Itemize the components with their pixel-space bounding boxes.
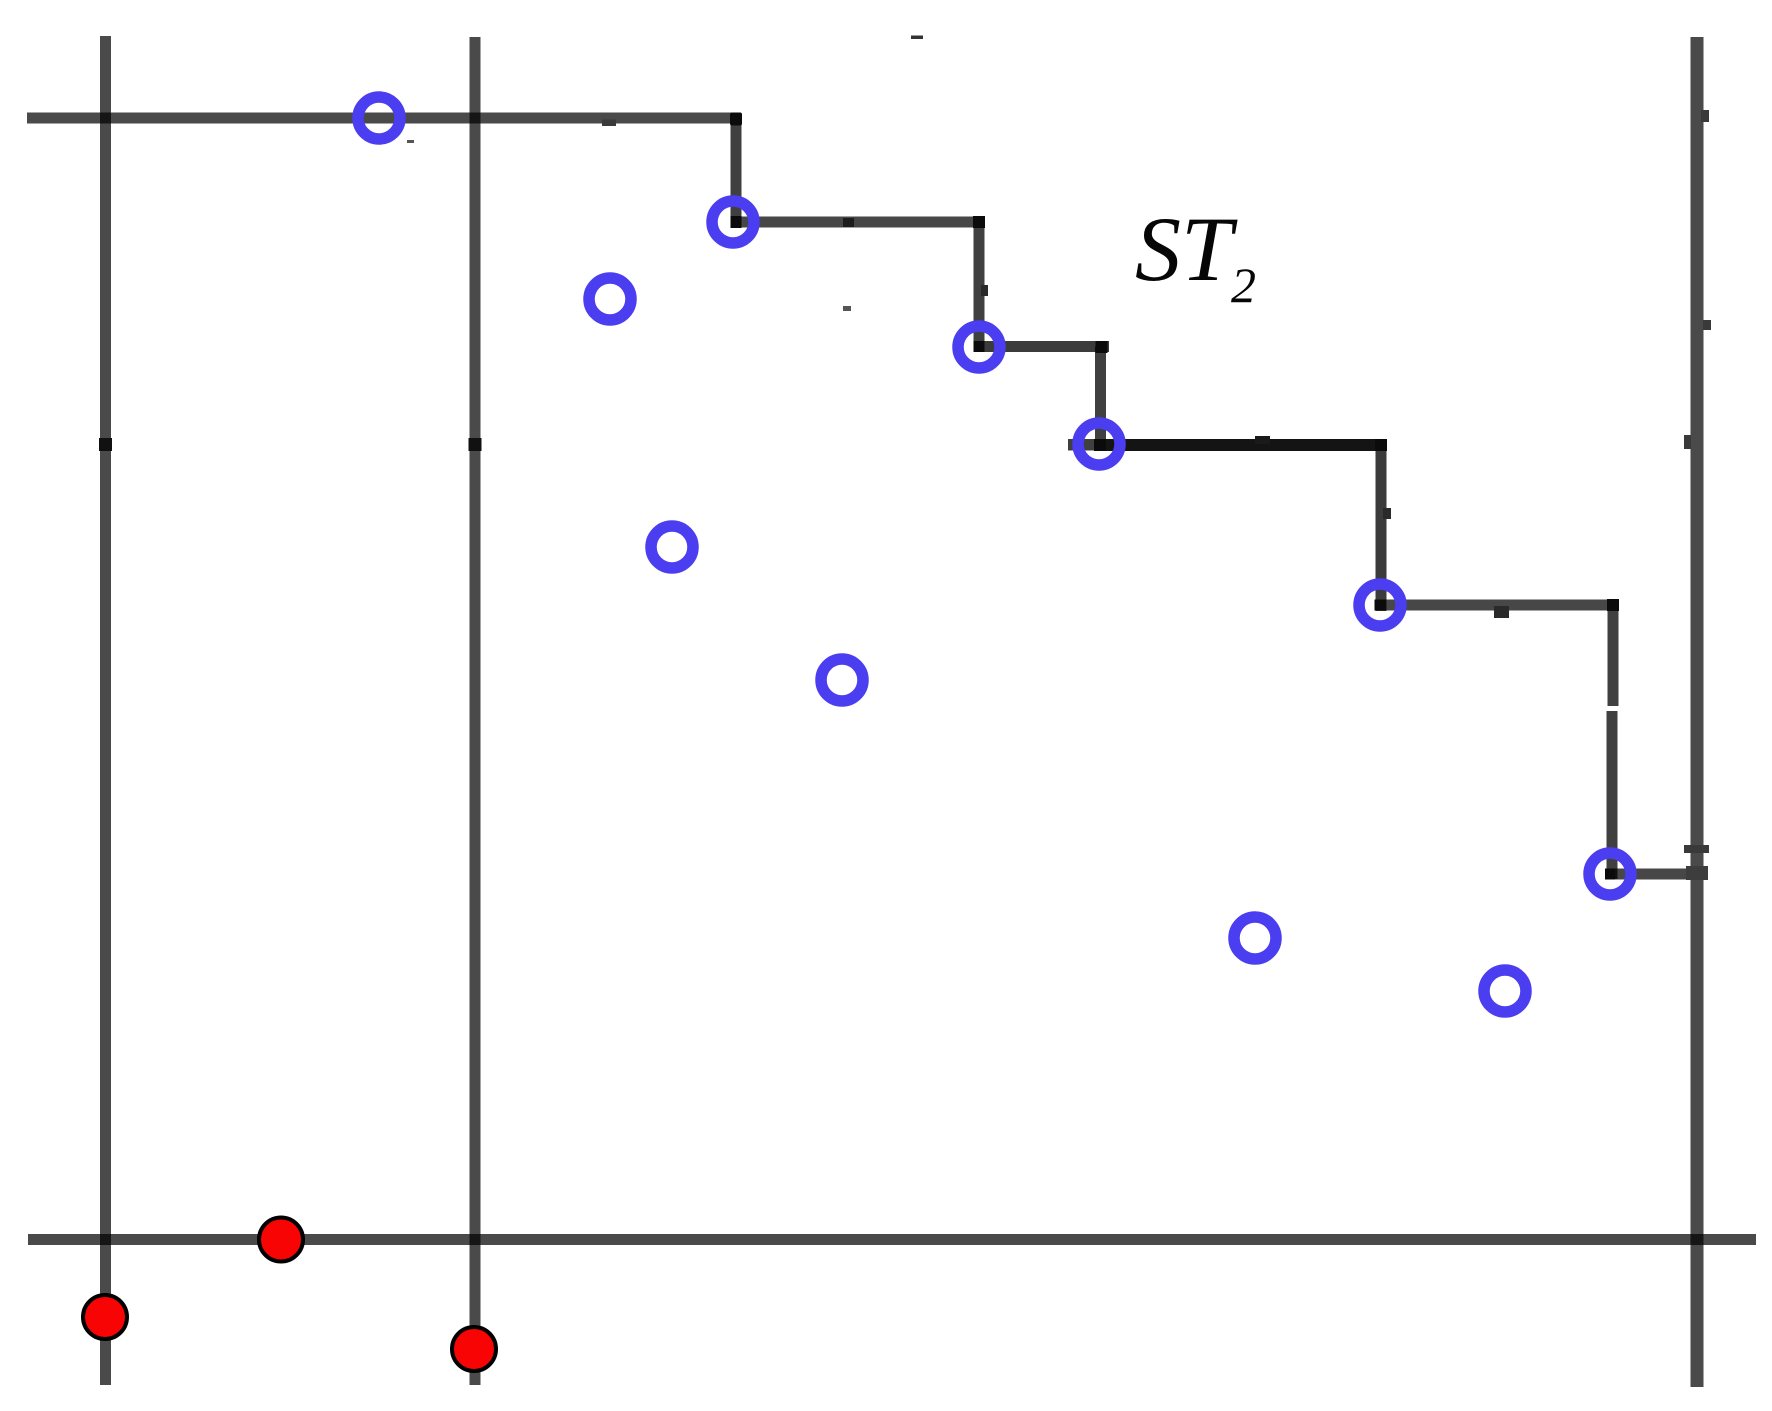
point P11 blue circle (1505,991): [1484, 970, 1526, 1012]
node corner dot (979,222): [973, 216, 985, 228]
point R3 red dot (474,1349): [452, 1327, 496, 1371]
wire bottom horizontal axis: [28, 1234, 1756, 1245]
node corner dot (1380,605): [1375, 600, 1386, 611]
wire staircase horizontal segment 4: [979, 341, 1109, 352]
point R1 red dot (281,1239): [259, 1218, 303, 1262]
point P5 blue circle (1380,605): [1359, 584, 1401, 626]
speck below top line right of circle P1: [407, 140, 414, 143]
junction block where final segment meets right axis: [1686, 866, 1708, 880]
speck bump above segment 6 at (1262,441): [1255, 436, 1270, 444]
wire staircase vertical segment 3: [974, 222, 985, 352]
point P4 blue circle (1099,445): [1078, 423, 1120, 465]
wire staircase vertical segment 9 upper part: [1608, 605, 1619, 706]
label ST2: [1135, 198, 1256, 313]
speck gray dash at (847,308): [843, 306, 851, 311]
point P1 blue circle (379,118): [358, 97, 400, 139]
point P3 blue circle (979,347): [958, 326, 1000, 368]
point P9 blue circle (842,680): [821, 659, 863, 701]
node corner dot (1613,605): [1607, 599, 1619, 611]
point P6 blue circle (1610,874): [1589, 853, 1631, 895]
tick on vertical line x2 at y=444: [469, 438, 482, 451]
wire staircase vertical segment 7: [1376, 445, 1387, 611]
tick on right axis at y=442: [1684, 435, 1691, 449]
wire staircase vertical segment 5: [1095, 347, 1106, 451]
point P2 blue circle (733,222): [712, 201, 754, 243]
speck blob under segment 8 at (1501,613): [1494, 606, 1509, 618]
speck tick right of segment 7 vertical at (1388,513): [1383, 508, 1391, 519]
speck tick right of segment 4 vertical at (984,290): [981, 285, 988, 296]
point P10 blue circle (1255,938): [1234, 917, 1276, 959]
wire vertical axis line x2: [470, 37, 481, 1385]
point P7 blue circle (610,299): [589, 278, 631, 320]
tick dash crossing right axis at y=849: [1684, 845, 1709, 853]
wire staircase horizontal segment 6 (dark): [1068, 439, 1387, 451]
node corner dot (736,118): [730, 113, 742, 126]
wire staircase horizontal segment 8: [1380, 600, 1613, 611]
node corner dot (1103,347): [1096, 341, 1108, 353]
point P8 blue circle (672,547): [651, 526, 693, 568]
node corner dot (1610,874): [1605, 869, 1615, 880]
tick on right axis at y=116: [1701, 110, 1709, 122]
tick on vertical line x1 at y=444: [99, 438, 112, 451]
wire right vertical axis: [1691, 37, 1704, 1387]
tick on right axis at y=325: [1703, 320, 1711, 330]
point R2 red dot (105,1317): [83, 1295, 127, 1339]
node corner dot (736,222): [731, 216, 742, 228]
node corner dot (979,347): [974, 341, 985, 352]
wire top horizontal segment of staircase ST2: [27, 113, 741, 124]
svg-text:ST: ST: [1135, 198, 1238, 300]
node corner dot (1381,445): [1375, 439, 1387, 451]
wire staircase horizontal segment 2: [736, 217, 984, 228]
speck dark dash on top line at x=610: [602, 120, 616, 127]
speck dark dot on segment 2 at x=848: [843, 218, 854, 227]
svg-text:2: 2: [1231, 257, 1256, 313]
wire staircase vertical segment 9 lower part: [1607, 711, 1618, 879]
speck dash near top center: [911, 36, 923, 40]
wire vertical axis line x1: [100, 36, 111, 1385]
wire staircase vertical segment 1: [731, 118, 742, 227]
wire staircase final horizontal segment 10: [1610, 869, 1706, 880]
node corner dot (1099,445): [1094, 439, 1106, 451]
